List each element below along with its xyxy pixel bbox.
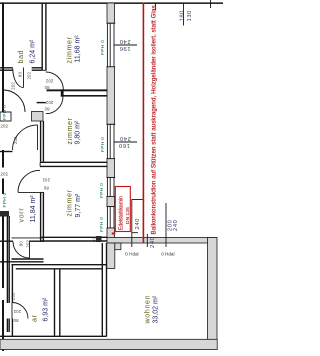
- window W2 zimmer9.80: [107, 124, 116, 158]
- wohnen right wall: [208, 238, 218, 342]
- svg-text:202: 202: [26, 239, 31, 247]
- wall zimmer9.80/9.77: [40, 162, 107, 166]
- wall zimmer9.80 top lower line stub: [37, 102, 46, 104]
- door zimmer9.77: leaf: [18, 191, 40, 193]
- left wall stub: [0, 211, 9, 217]
- svg-text:240: 240: [173, 220, 179, 231]
- left inner wall upper: [7, 216, 9, 303]
- gray block corridor pilaster: [32, 112, 44, 122]
- wohnen top wall: [107, 238, 217, 244]
- window W3b zimmer9.77: [107, 207, 116, 228]
- zimmer9.77 bottom wall: [40, 237, 107, 241]
- svg-text:0 Hdal: 0 Hdal: [161, 252, 174, 257]
- east wall gray pier: [107, 197, 115, 207]
- ar room box walls: [0, 243, 107, 337]
- svg-text:ar: ar: [31, 314, 38, 322]
- door vestibule: leaf: [29, 242, 31, 259]
- svg-text:6,93 m²: 6,93 m²: [42, 297, 49, 321]
- svg-text:DN 125: DN 125: [125, 207, 131, 224]
- bottom exterior wall: [0, 339, 217, 349]
- dimension tick window2: [114, 141, 137, 143]
- wohnen left wall: [107, 243, 115, 269]
- svg-text:9,80 m²: 9,80 m²: [75, 120, 82, 144]
- left exterior wall: [2, 2, 4, 351]
- svg-text:202: 202: [10, 82, 15, 90]
- door bad: arc: [13, 69, 24, 88]
- door zimmer9.80: arc: [46, 97, 63, 114]
- top exterior line: [0, 2, 223, 4]
- svg-text:bad: bad: [18, 50, 25, 64]
- left inner wall lower: [7, 319, 9, 333]
- dim tick top right: [183, 3, 185, 26]
- svg-text:130: 130: [187, 10, 193, 21]
- wall bad/zimmer11.68: [42, 3, 47, 71]
- dim tick right of red line: [146, 234, 148, 247]
- door zimmer9.77: arc: [18, 170, 40, 192]
- svg-text:80: 80: [44, 85, 50, 90]
- svg-text:vorr: vorr: [19, 208, 26, 223]
- svg-text:80: 80: [44, 107, 50, 112]
- door west room G: arc: [13, 125, 38, 150]
- svg-text:0 Hdal: 0 Hdal: [125, 252, 138, 257]
- east wall gray segment bottom: [107, 228, 115, 238]
- svg-text:Balkonkonstruktion auf Stützen: Balkonkonstruktion auf Stützen statt aus…: [150, 5, 157, 234]
- left wall door G opening: [2, 122, 5, 151]
- svg-text:FPH 0: FPH 0: [2, 105, 8, 120]
- svg-text:180: 180: [179, 10, 185, 21]
- svg-text:zimmer: zimmer: [67, 117, 74, 144]
- svg-text:202: 202: [1, 124, 9, 129]
- svg-text:FPH 0: FPH 0: [100, 137, 106, 152]
- door ar: leaf: [11, 303, 13, 319]
- svg-text:FPH 0: FPH 0: [2, 192, 8, 207]
- niche box left wall: [0, 112, 11, 121]
- zimmer9.77 west wall: [40, 192, 44, 241]
- svg-text:80: 80: [43, 186, 49, 191]
- svg-text:202: 202: [42, 178, 50, 183]
- east wall gray segment mid1: [107, 67, 115, 125]
- dim tick chimney horiz: [132, 199, 143, 201]
- svg-text:zimmer: zimmer: [67, 189, 74, 216]
- svg-text:11,68 m²: 11,68 m²: [75, 35, 82, 63]
- svg-text:11,84 m²: 11,84 m²: [30, 195, 37, 223]
- left wall opening at ar door: [2, 288, 5, 300]
- svg-text:202: 202: [13, 136, 18, 144]
- jamb between doors: [61, 89, 64, 96]
- door west room G: sill line: [0, 151, 13, 153]
- dim tick chimney: [131, 200, 133, 248]
- black block near chimney: [96, 236, 102, 242]
- dimension tick window1: [114, 44, 137, 46]
- bad bottom wall left: [0, 68, 13, 70]
- red tick below box: [112, 233, 116, 235]
- door west room G: leaf: [37, 125, 39, 150]
- east wall gray segment top: [107, 3, 115, 23]
- vestibule line: [0, 259, 44, 262]
- door vestibule: arc: [13, 242, 30, 259]
- door zimmer11.68: arc: [46, 72, 64, 90]
- red box Edelstahlkamin: [115, 187, 130, 232]
- svg-text:202: 202: [27, 71, 32, 79]
- vorr bottom wall left stub: [0, 240, 13, 242]
- svg-text:wohnen: wohnen: [145, 295, 152, 325]
- red balcony line: [143, 3, 145, 244]
- wohnen left wall notch: [115, 243, 121, 250]
- door bad: leaf: [23, 68, 25, 88]
- svg-text:Edelstahlkamin: Edelstahlkamin: [119, 196, 125, 230]
- door ar: arc: [12, 303, 28, 319]
- dim tick balcony mid: [165, 203, 167, 247]
- dim tick top right short left: [155, 3, 157, 11]
- zimmer9.80 west wall: [41, 121, 44, 162]
- svg-text:202: 202: [45, 79, 53, 84]
- window W3a zimmer9.77: [107, 177, 116, 196]
- svg-text:202: 202: [11, 292, 16, 300]
- svg-text:FPH 0: FPH 0: [99, 183, 105, 198]
- wall zimmer11.68 bottom line: [47, 89, 108, 91]
- svg-text:FPH 0: FPH 0: [99, 217, 105, 232]
- svg-text:80: 80: [13, 318, 19, 323]
- left wall opening lower: [2, 168, 5, 179]
- svg-text:202: 202: [1, 172, 9, 177]
- svg-text:80: 80: [19, 241, 24, 247]
- dim tick chimney horiz lower: [132, 232, 139, 234]
- svg-text:202: 202: [45, 100, 53, 105]
- svg-text:202: 202: [13, 309, 21, 314]
- vorr bottom wall right stub: [30, 240, 45, 242]
- wall zimmer9.80 top upper line: [61, 95, 108, 97]
- svg-text:240: 240: [119, 135, 130, 141]
- svg-text:160: 160: [118, 142, 129, 148]
- svg-text:240: 240: [150, 237, 156, 248]
- svg-text:zimmer: zimmer: [67, 36, 74, 63]
- dim tick top right short right: [210, 0, 212, 8]
- svg-text:80: 80: [92, 236, 97, 242]
- wall cap 9.80/9.77 left end: [39, 162, 41, 166]
- svg-text:240: 240: [119, 38, 130, 44]
- vorr bottom wall thin lintel: [12, 237, 45, 239]
- svg-text:FPH 0: FPH 0: [100, 40, 106, 55]
- svg-text:33,02 m²: 33,02 m²: [153, 295, 160, 323]
- left wall opening at FPH: [2, 194, 5, 211]
- svg-text:240: 240: [135, 218, 141, 229]
- east wall gray segment mid2: [107, 159, 115, 178]
- window W1 zimmer11.68: [107, 23, 116, 67]
- door west room H: arc: [3, 90, 25, 112]
- svg-text:196: 196: [119, 45, 130, 51]
- bad bottom wall right: [32, 68, 42, 70]
- svg-text:6,24 m²: 6,24 m²: [30, 39, 37, 63]
- svg-text:80: 80: [17, 71, 22, 77]
- svg-text:9,77 m²: 9,77 m²: [75, 193, 82, 217]
